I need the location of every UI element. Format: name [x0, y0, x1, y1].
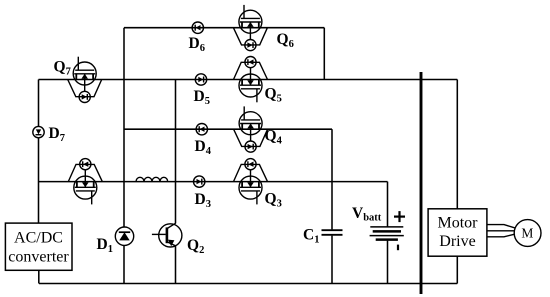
- svg-text:M: M: [521, 226, 533, 241]
- svg-text:AC/DC: AC/DC: [14, 229, 63, 246]
- svg-text:D1: D1: [97, 236, 113, 255]
- wire DC bus thick vertical: [420, 72, 423, 294]
- transistor Q6 (MOSFET): [233, 5, 293, 51]
- wire motor lead 1: [487, 225, 515, 228]
- wire D4/Q4 rail: [124, 128, 332, 130]
- svg-text:Q5: Q5: [265, 86, 282, 105]
- wire motor drive bottom pin: [456, 256, 458, 283]
- diode D5: [194, 74, 210, 107]
- svg-text:D4: D4: [195, 138, 212, 157]
- battery minus tick: [397, 245, 399, 251]
- svg-text:Motor: Motor: [438, 214, 479, 231]
- svg-text:converter: converter: [8, 249, 69, 266]
- svg-text:Q3: Q3: [265, 191, 282, 210]
- transistor Q1 (MOSFET, unlabeled in figure): [68, 159, 102, 205]
- transistor Q7 (MOSFET): [54, 57, 102, 103]
- svg-text:Drive: Drive: [439, 233, 475, 250]
- wire vertical link from top rail down to middle rail: [323, 28, 325, 80]
- wire battery branch vertical upper part: [387, 182, 389, 227]
- svg-text:Vbatt: Vbatt: [352, 205, 382, 224]
- wire AC/DC converter bottom pin: [38, 270, 40, 283]
- diode D3: [194, 176, 211, 210]
- wire top rail: [124, 27, 324, 29]
- wire vertical bus 2 (through Q2) lower part: [175, 246, 177, 284]
- transistor Q3 (MOSFET): [234, 159, 282, 210]
- wire C1 branch vertical lower part: [331, 236, 333, 284]
- wire C1 branch vertical upper part: [331, 129, 333, 229]
- wire left vertical (through D7) upper part: [38, 80, 40, 127]
- inductor L: [136, 177, 168, 181]
- wire middle rail (Q7/D5/Q5 row): [39, 79, 458, 81]
- wire motor drive top pin: [456, 80, 458, 209]
- capacitor C1: [303, 227, 343, 246]
- wire left vertical (through D7) lower part to AC/DC box: [38, 138, 40, 223]
- diode D7: [33, 125, 65, 144]
- battery plus sign: [394, 211, 405, 222]
- motor M: [514, 220, 541, 247]
- svg-text:D6: D6: [189, 35, 205, 54]
- svg-text:Q7: Q7: [54, 59, 71, 78]
- svg-text:Q6: Q6: [277, 31, 294, 50]
- svg-text:D7: D7: [49, 125, 65, 144]
- wire vertical bus 1 (through D1) upper part: [123, 28, 125, 227]
- Motor Drive box: [428, 209, 487, 256]
- battery Vbatt: [352, 205, 404, 240]
- AC/DC converter box: [5, 223, 72, 270]
- wire vertical bus 2 (through Q2) upper part: [175, 80, 177, 224]
- diode D6: [189, 22, 205, 54]
- diode D4: [195, 124, 212, 158]
- wire bottom rail: [39, 283, 457, 285]
- svg-text:D3: D3: [195, 191, 211, 210]
- wire inductor/D3/Q3 rail: [39, 181, 388, 183]
- svg-text:C1: C1: [303, 227, 319, 246]
- svg-text:Q2: Q2: [187, 237, 204, 256]
- diode D1: [97, 227, 134, 255]
- transistor Q2 (BJT): [152, 223, 204, 256]
- svg-text:Q4: Q4: [265, 128, 283, 147]
- wire motor lead 3: [487, 234, 515, 237]
- wire motor lead 2: [487, 230, 514, 232]
- svg-text:D5: D5: [194, 88, 210, 107]
- transistor Q4 (MOSFET): [234, 106, 283, 152]
- transistor Q5 (MOSFET): [234, 57, 282, 105]
- wire vertical bus 1 (through D1) lower part: [123, 245, 125, 283]
- wire battery branch vertical lower part: [387, 241, 389, 284]
